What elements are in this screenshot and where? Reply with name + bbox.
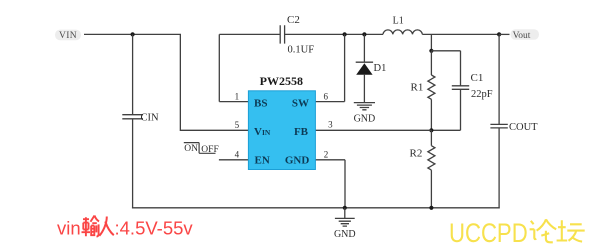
node Vout junction <box>497 32 501 36</box>
pin 1 BS <box>235 91 268 109</box>
wire top rail L1 to Vout <box>422 33 499 35</box>
diode D1 <box>356 34 387 102</box>
svg-text:L1: L1 <box>393 16 404 27</box>
capacitor COUT <box>490 122 538 133</box>
svg-text:C2: C2 <box>287 14 300 26</box>
node SW junction <box>343 32 347 36</box>
svg-text:COUT: COUT <box>509 122 538 133</box>
wire CIN column lower <box>132 119 134 209</box>
capacitor C1 branch <box>431 51 492 131</box>
svg-text:5: 5 <box>235 120 240 130</box>
wire bottom ground rail <box>132 207 500 209</box>
svg-text:ON: ON <box>184 144 198 154</box>
svg-text:4: 4 <box>235 150 240 160</box>
node CIN junction <box>131 32 135 36</box>
svg-text::4.5V-55v: :4.5V-55v <box>115 218 194 239</box>
pin 5 VIN <box>235 120 271 138</box>
svg-text:D1: D1 <box>374 63 387 74</box>
CJK shu (transport) <box>82 216 100 237</box>
pin 3 FB <box>294 120 333 138</box>
wire top rail C2 to L1 <box>285 33 383 35</box>
node R2 bottom junction <box>429 206 433 210</box>
node D1 junction <box>362 32 366 36</box>
annotation yellow watermark UCCPD forum <box>449 219 585 246</box>
wire EN pin4 stub <box>219 159 249 161</box>
svg-text:BS: BS <box>254 97 267 109</box>
svg-text:OFF: OFF <box>201 145 218 155</box>
svg-text:22pF: 22pF <box>471 89 493 100</box>
svg-text:GND: GND <box>334 229 356 240</box>
svg-text:Vout: Vout <box>513 31 531 41</box>
svg-text:vin: vin <box>57 218 81 239</box>
annotation red input range text <box>57 216 193 239</box>
svg-text:FB: FB <box>294 126 309 138</box>
node Vout label <box>511 29 540 41</box>
wire C2 branch left (pin1 to top) <box>219 34 280 101</box>
svg-text:UCCPD: UCCPD <box>449 219 528 246</box>
wire CIN column upper <box>132 34 134 114</box>
pin 2 GND <box>285 150 328 167</box>
ground at bottom rail <box>334 208 356 240</box>
node VIN label <box>55 30 81 41</box>
svg-text:GND: GND <box>285 154 310 166</box>
svg-text:2: 2 <box>324 150 329 160</box>
wire FB pin3 <box>315 129 431 131</box>
wire SW pin6 <box>315 34 344 101</box>
CJK ru (enter) <box>99 217 114 236</box>
node R1/C1 top junction <box>429 49 433 53</box>
switch ON/OFF <box>184 143 219 156</box>
svg-text:CIN: CIN <box>141 112 160 123</box>
node FB junction <box>429 128 433 132</box>
svg-text:R1: R1 <box>411 82 424 94</box>
wire VIN input horizontal <box>84 33 181 35</box>
wire R1 top drop <box>430 34 432 50</box>
svg-text:VIN: VIN <box>59 31 77 41</box>
pin 4 EN <box>235 150 270 167</box>
svg-text:3: 3 <box>328 120 333 130</box>
svg-text:1: 1 <box>235 91 240 101</box>
wire VIN down to pin5 <box>180 34 248 130</box>
wire GND pin2 <box>315 160 345 208</box>
wire COUT column upper <box>498 34 500 124</box>
ground at D1 <box>354 103 376 125</box>
svg-text:C1: C1 <box>471 72 484 84</box>
svg-text:VIN: VIN <box>254 126 271 138</box>
svg-text:0.1UF: 0.1UF <box>288 45 315 56</box>
wire Vout stub <box>499 33 509 35</box>
node GND junction <box>343 206 347 210</box>
resistor R2 <box>410 130 435 208</box>
resistor R1 <box>411 51 435 131</box>
inductor L1 <box>383 16 422 35</box>
capacitor C2 <box>280 14 314 55</box>
wire COUT column lower <box>498 128 500 209</box>
CJK lun (forum) <box>530 219 557 242</box>
svg-text:GND: GND <box>354 113 376 124</box>
svg-text:SW: SW <box>292 97 309 109</box>
svg-text:EN: EN <box>255 154 270 166</box>
svg-text:R2: R2 <box>410 148 423 160</box>
svg-text:PW2558: PW2558 <box>260 74 303 88</box>
CJK tan (altar) <box>557 220 585 241</box>
capacitor CIN <box>122 112 159 123</box>
svg-text:6: 6 <box>323 91 328 101</box>
op-amp U1 PW2558 body <box>248 74 315 169</box>
pin 6 SW <box>292 91 329 109</box>
